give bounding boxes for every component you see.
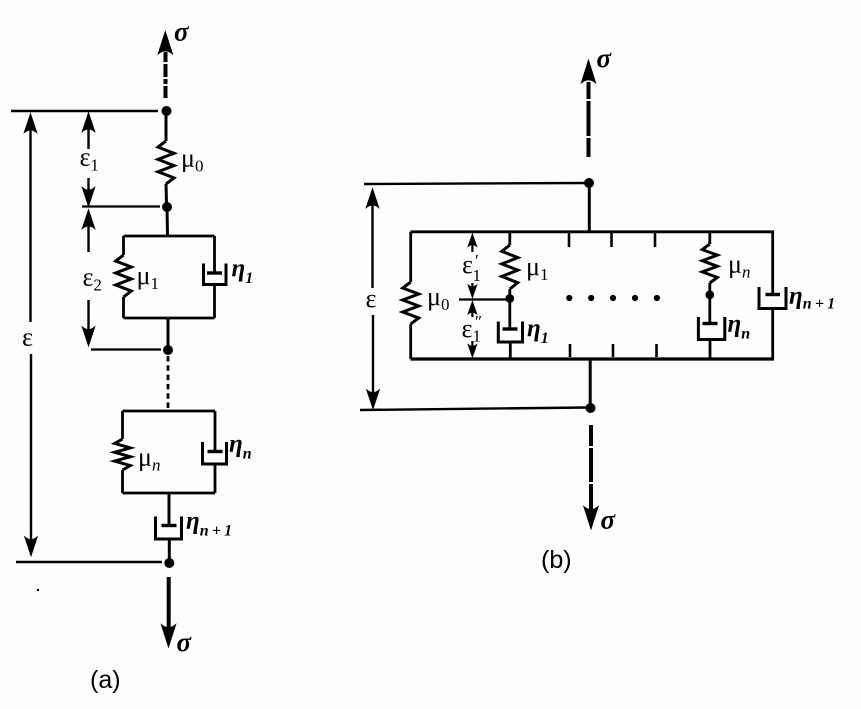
dashpot etan piston rod (a) <box>214 411 217 451</box>
stress arrow sigma top (a) <box>158 32 172 98</box>
tick 1 on bottom bar <box>569 344 572 357</box>
stray speck <box>37 589 39 591</box>
wire bottom horizontal line (b) <box>360 408 587 411</box>
dimension epsilon1doubleprime upper arrow (b) <box>468 302 476 317</box>
dashpot eta1 cylinder cup (b) <box>498 322 522 343</box>
dimension epsilon lower segment (b) <box>367 315 379 408</box>
wire bottom bar to node B4 (b) <box>589 359 592 406</box>
wire box1 left top <box>122 236 125 255</box>
dashpot etan piston plate (b) <box>703 322 718 325</box>
dimension epsilon2 lower arrow (a) <box>83 300 95 345</box>
spring mu1 (b) <box>502 245 518 289</box>
spring mun (b) <box>702 244 717 283</box>
stress arrow sigma bottom (b) <box>584 425 598 529</box>
dimension epsilon1prime upper arrow (b) <box>468 235 476 253</box>
wire reference line at node level (b) <box>459 298 507 300</box>
dashpot eta1 piston rod (a) <box>213 236 216 272</box>
wire dashpot eta1 to box1 bottom <box>213 285 216 319</box>
wire top bar to spring mu1 (b) <box>508 232 511 245</box>
dimension epsilon1 lower arrow (a) <box>83 178 95 206</box>
wire node B1 to frame top bar <box>588 183 591 232</box>
dashpot eta1 piston plate (b) <box>503 327 518 330</box>
wire dashpot etan+1 to bottom bar (b) <box>771 309 774 360</box>
dashpot etan+1 piston rod (a) <box>168 493 171 525</box>
spring mu1 (a) <box>116 255 132 297</box>
node A3 junction (a) <box>163 345 173 355</box>
dashpot etan piston rod (b) <box>708 295 711 323</box>
wire box2 left top <box>121 411 124 439</box>
wire frame top bar (b) <box>411 230 775 233</box>
spring mun (a) <box>115 439 131 470</box>
tick 3 on top bar <box>654 233 657 247</box>
wire node A1 to spring mu0 <box>165 111 168 141</box>
node B2 junction mu1-eta1 (b) <box>505 294 514 303</box>
stress arrow sigma top (b) <box>582 61 596 158</box>
dashpot etan cylinder cup (b) <box>698 317 724 340</box>
dimension epsilon1 upper arrow (a) <box>83 114 95 150</box>
wire third horizontal line (a) <box>91 348 161 350</box>
wire dashpot etan+1 to node A4 <box>168 539 171 560</box>
tick 2 on bottom bar <box>612 344 615 357</box>
dimension epsilon overall upper segment (a) <box>25 115 37 323</box>
wire dashed link node A3 to box 2 <box>167 356 170 408</box>
tick 3 on bottom bar <box>655 344 658 357</box>
dashpot etan+1 piston plate (a) <box>162 524 177 527</box>
svg-text:(b): (b) <box>541 546 572 574</box>
wire top horizontal line (a) <box>11 110 158 112</box>
dimension epsilon upper segment (b) <box>367 190 379 289</box>
wire box1 to node A3 <box>167 318 170 350</box>
dashpot etan+1 piston plate (b) <box>766 293 781 296</box>
dimension epsilon overall lower segment (a) <box>25 354 37 555</box>
wire box2 left bottom <box>121 470 124 493</box>
wire Kelvin box 2 bottom bar <box>123 492 216 495</box>
node A1 top junction (a) <box>162 106 172 116</box>
tick 1 on top bar <box>568 233 571 247</box>
wire dashpot etan to bottom bar (b) <box>709 340 712 360</box>
svg-text:ε: ε <box>22 323 33 352</box>
stress arrow sigma bottom (a) <box>162 577 176 647</box>
wire box1 left bottom <box>122 297 125 318</box>
wire Kelvin box 1 bottom bar <box>124 317 215 320</box>
dashpot etan piston plate (a) <box>208 450 223 453</box>
dashpot etan+1 cylinder cup (a) <box>156 517 182 540</box>
wire bottom horizontal line (a) <box>16 561 162 563</box>
wire spring mu0 to node A2 <box>165 184 169 207</box>
wire Kelvin box 2 top bar <box>123 410 216 413</box>
wire top horizontal line (b) <box>364 183 586 184</box>
wire top bar to spring mun (b) <box>708 232 711 244</box>
svg-text:σ: σ <box>601 505 617 535</box>
dashpot etan+1 cylinder cup (b) <box>759 287 786 309</box>
dimension epsilon1doubleprime lower arrow (b) <box>468 341 476 357</box>
dashpot eta1 piston plate (a) <box>207 271 222 274</box>
svg-text:ε: ε <box>462 250 473 279</box>
node B1 top junction (b) <box>584 178 594 188</box>
svg-text:ε: ε <box>366 284 377 313</box>
wire left wall top to spring mu0 (b) <box>409 232 412 282</box>
tick 2 on top bar <box>610 233 613 247</box>
dashpot eta1 piston rod (b) <box>508 299 511 329</box>
dashpot eta1 cylinder cup (a) <box>204 264 227 285</box>
wire Kelvin box 1 top bar <box>124 235 215 238</box>
wire second horizontal line (a) <box>82 205 160 207</box>
wire frame bottom bar (b) <box>411 357 775 360</box>
svg-text:(a): (a) <box>90 666 121 694</box>
wire spring mu0 to bottom bar (b) <box>409 324 412 359</box>
svg-text:′: ′ <box>475 251 479 270</box>
wire node A2 to Kelvin box 1 <box>166 207 170 236</box>
node A4 bottom junction (a) <box>164 558 174 568</box>
svg-text:ε: ε <box>462 314 473 343</box>
node A2 junction below mu0 (a) <box>162 202 172 212</box>
node B3 junction mun-etan (b) <box>705 290 714 299</box>
dimension epsilon2 upper arrow (a) <box>83 211 95 253</box>
dimension epsilon1prime lower arrow (b) <box>468 283 476 297</box>
dots ellipsis between branches (b) <box>566 295 660 301</box>
wire dashpot eta1 to bottom bar (b) <box>509 342 512 359</box>
svg-text:σ: σ <box>174 17 190 47</box>
dashpot etan cylinder cup (a) <box>203 442 227 464</box>
spring mu0 (b) <box>403 282 419 324</box>
wire spring mu1 to node B2 <box>508 289 511 296</box>
node B4 bottom junction (b) <box>586 403 596 413</box>
spring (resistor-style) mu0 (a) <box>158 141 174 184</box>
wire dashpot etan to box2 bottom <box>214 464 217 493</box>
svg-text:σ: σ <box>597 43 613 73</box>
wire spring mun to node B3 <box>708 283 711 292</box>
svg-text:σ: σ <box>177 627 193 657</box>
dashpot etan+1 piston rod right wall (b) <box>771 232 774 294</box>
svg-text:″: ″ <box>475 312 482 331</box>
